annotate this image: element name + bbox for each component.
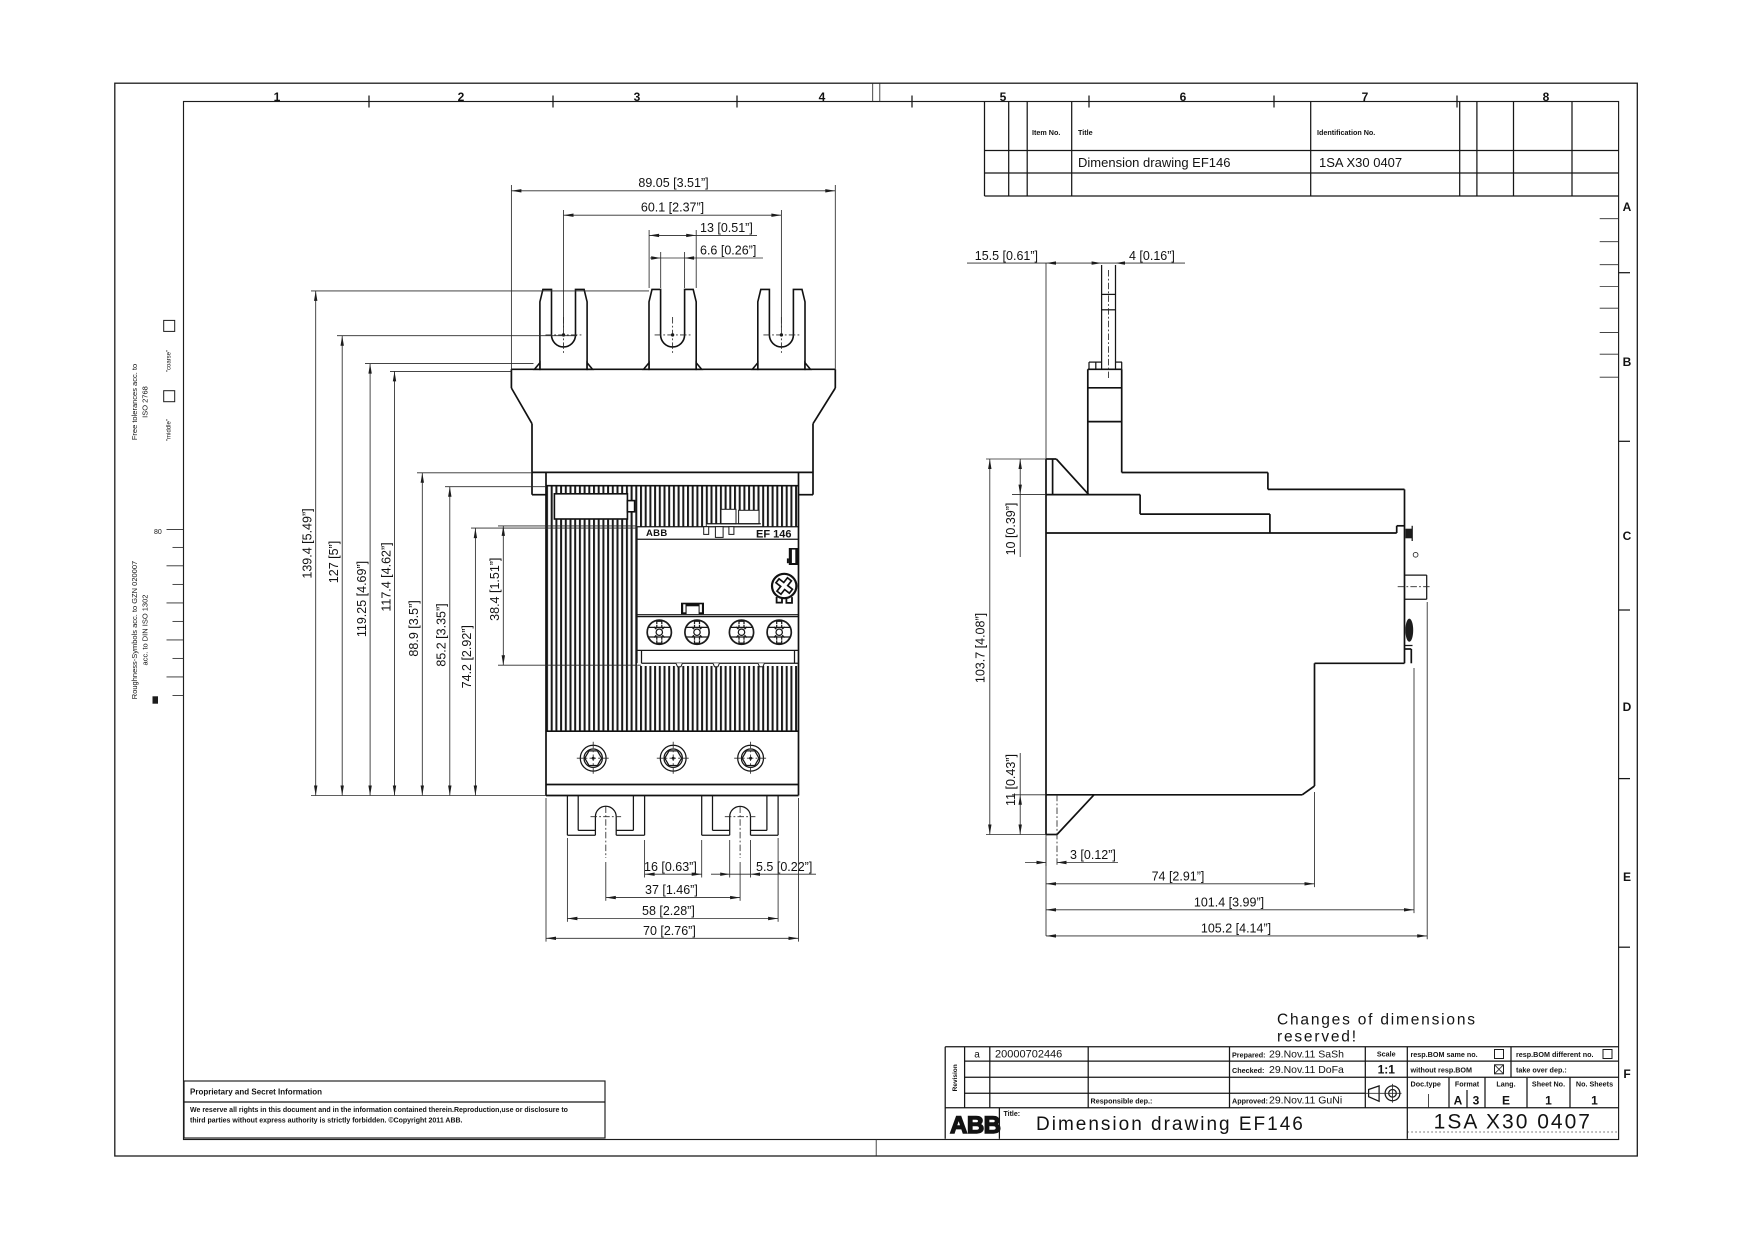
dimension 127 [5"] xyxy=(327,336,344,796)
svg-text:Changes of dimensions: Changes of dimensions xyxy=(1277,1012,1477,1029)
svg-text:7: 7 xyxy=(1362,90,1369,104)
svg-text:EF 146: EF 146 xyxy=(756,529,791,541)
side view: fork blade xyxy=(1089,265,1122,369)
dimension 88.9 [3.5"] xyxy=(407,473,424,796)
front view: top fork terminal 3 xyxy=(752,289,810,369)
svg-text:29.Nov.11 GuNi: 29.Nov.11 GuNi xyxy=(1269,1095,1342,1107)
svg-text:B: B xyxy=(1623,355,1632,369)
dimension 58 [2.28"] xyxy=(567,838,778,922)
svg-text:3 [0.12”]: 3 [0.12”] xyxy=(1070,848,1116,862)
dimension 4 [0.16"] xyxy=(1116,249,1175,265)
svg-text:8: 8 xyxy=(1543,90,1550,104)
dimension 37 [1.46"] xyxy=(606,862,740,901)
svg-text:resp.BOM same no.: resp.BOM same no. xyxy=(1411,1050,1478,1059)
svg-text:74 [2.91”]: 74 [2.91”] xyxy=(1152,869,1205,883)
side view: front bottom step xyxy=(1046,649,1411,835)
svg-text:No. Sheets: No. Sheets xyxy=(1576,1080,1613,1089)
svg-text:16 [0.63”]: 16 [0.63”] xyxy=(644,860,697,874)
svg-text:103.7 [4.08”]: 103.7 [4.08”] xyxy=(974,613,988,683)
svg-text:5.5 [0.22”]: 5.5 [0.22”] xyxy=(756,860,812,874)
side view: back face xyxy=(1045,459,1047,835)
front view: terminal screws row xyxy=(647,620,791,644)
left margin mm ruler xyxy=(167,530,184,696)
side view: DIN claw top xyxy=(1046,459,1405,835)
front view: bottom mounting band xyxy=(546,784,799,786)
svg-text:C: C xyxy=(1623,529,1632,543)
svg-text:139.4 [5.49”]: 139.4 [5.49”] xyxy=(301,508,315,578)
svg-text:6: 6 xyxy=(1180,90,1187,104)
svg-text:Doc.type: Doc.type xyxy=(1411,1080,1441,1089)
svg-text:Approved:: Approved: xyxy=(1232,1097,1268,1106)
svg-text:ABB: ABB xyxy=(646,528,667,539)
svg-text:Title:: Title: xyxy=(1004,1111,1021,1118)
svg-text:89.05 [3.51”]: 89.05 [3.51”] xyxy=(638,176,708,190)
front view: panel bottom double line xyxy=(637,614,799,616)
svg-text:70 [2.76”]: 70 [2.76”] xyxy=(643,924,696,938)
svg-text:Prepared:: Prepared: xyxy=(1232,1051,1266,1060)
svg-text:37 [1.46”]: 37 [1.46”] xyxy=(645,883,698,897)
svg-text:Roughness-Symbols acc. to GZN: Roughness-Symbols acc. to GZN 020007 xyxy=(130,561,139,699)
svg-text:117.4 [4.62”]: 117.4 [4.62”] xyxy=(379,542,393,611)
left taper xyxy=(511,388,532,424)
dimension 38.4 [1.51"] xyxy=(488,526,505,665)
svg-text:A: A xyxy=(1623,200,1632,214)
svg-text:105.2 [4.14”]: 105.2 [4.14”] xyxy=(1201,922,1271,936)
bottom fold mark xyxy=(875,1140,877,1157)
front view: white areas over fins xyxy=(637,527,799,666)
tolerance checkbox squares xyxy=(164,320,175,331)
svg-text:101.4 [3.99”]: 101.4 [3.99”] xyxy=(1194,895,1264,909)
front view: connector window top right xyxy=(789,548,798,565)
svg-text:2: 2 xyxy=(458,90,465,104)
svg-text:Checked:: Checked: xyxy=(1232,1066,1264,1075)
svg-text:74.2 [2.92”]: 74.2 [2.92”] xyxy=(460,625,474,688)
dimension 74 [2.91"] xyxy=(1046,792,1315,887)
svg-text:Dimension drawing EF146: Dimension drawing EF146 xyxy=(1078,155,1230,170)
top edge of terminal housing xyxy=(511,368,835,370)
svg-text:10 [0.39”]: 10 [0.39”] xyxy=(1004,503,1018,556)
dimension 117.4 [4.62"] xyxy=(379,371,396,795)
svg-text:Title: Title xyxy=(1078,128,1093,137)
front view: hex fastener 1 xyxy=(577,742,610,775)
svg-text:A: A xyxy=(1454,1094,1463,1108)
front view: panel left edge xyxy=(636,527,638,664)
svg-text:resp.BOM different no.: resp.BOM different no. xyxy=(1516,1050,1593,1059)
right upper corner xyxy=(834,369,836,388)
outer border frame xyxy=(115,83,1638,1156)
svg-text:acc. to DIN ISO 1302: acc. to DIN ISO 1302 xyxy=(141,595,150,666)
side view: dial knob profile xyxy=(1405,575,1427,599)
side view: bottom front outline xyxy=(1315,662,1405,664)
front view: reset window bottom xyxy=(681,603,704,615)
front view: bottom pin terminal 2 xyxy=(702,796,778,836)
label plate tab xyxy=(627,501,634,512)
svg-text:119.25 [4.69”]: 119.25 [4.69”] xyxy=(355,561,369,637)
svg-text:Scale: Scale xyxy=(1377,1050,1396,1059)
dimension 6.6 [0.26"] xyxy=(650,244,763,288)
svg-text:We reserve all rights in this: We reserve all rights in this document a… xyxy=(190,1107,568,1114)
top zone divider ticks xyxy=(368,96,370,108)
dimension 103.7 [4.08"] xyxy=(974,459,1047,835)
right taper xyxy=(813,388,835,424)
svg-text:29.Nov.11 SaSh: 29.Nov.11 SaSh xyxy=(1269,1049,1344,1061)
dimension 101.4 [3.99"] xyxy=(1046,668,1414,913)
svg-text:80: 80 xyxy=(154,529,162,536)
svg-text:60.1 [2.37”]: 60.1 [2.37”] xyxy=(641,201,704,215)
svg-text:38.4 [1.51”]: 38.4 [1.51”] xyxy=(488,558,502,621)
svg-text:"coarse": "coarse" xyxy=(167,350,173,372)
side view: front face xyxy=(1404,489,1406,663)
svg-text:3: 3 xyxy=(1473,1094,1480,1108)
proprietary information box xyxy=(184,1081,605,1138)
svg-text:1: 1 xyxy=(1591,1094,1598,1108)
side view: screw side profile xyxy=(1405,619,1413,642)
body right edge xyxy=(798,472,800,795)
svg-text:Proprietary and Secret Informa: Proprietary and Secret Information xyxy=(190,1088,322,1097)
left upper corner xyxy=(510,369,512,388)
svg-text:Dimension drawing EF146: Dimension drawing EF146 xyxy=(1036,1114,1305,1135)
svg-text:take over dep.:: take over dep.: xyxy=(1516,1065,1567,1074)
svg-text:D: D xyxy=(1623,700,1632,714)
hidden edge of foot xyxy=(1056,795,1058,866)
svg-text:15.5 [0.61”]: 15.5 [0.61”] xyxy=(975,249,1038,263)
front view: hex fastener 2 xyxy=(657,742,690,775)
dimension 15.5 [0.61"] xyxy=(967,249,1185,459)
front view: bottom pin terminal 1 xyxy=(567,796,644,836)
svg-text:Free tolerances acc. to: Free tolerances acc. to xyxy=(130,364,139,440)
front view: lower contour of panel xyxy=(637,649,799,651)
svg-text:Format: Format xyxy=(1455,1080,1480,1089)
svg-text:20000702446: 20000702446 xyxy=(995,1049,1062,1061)
dimension 105.2 [4.14"] xyxy=(1046,602,1427,939)
dimension 10 [0.39"] xyxy=(1004,459,1046,557)
left flange xyxy=(531,424,533,495)
svg-text:3: 3 xyxy=(634,90,641,104)
svg-text:1: 1 xyxy=(274,90,281,104)
svg-text:29.Nov.11 DoFa: 29.Nov.11 DoFa xyxy=(1269,1064,1344,1076)
first angle projection symbol xyxy=(1369,1086,1400,1101)
svg-text:4 [0.16”]: 4 [0.16”] xyxy=(1129,249,1175,263)
svg-text:13 [0.51”]: 13 [0.51”] xyxy=(700,221,753,235)
dimension 16 [0.63"] xyxy=(644,840,702,878)
dimension 60.1 [2.37"] xyxy=(564,201,782,331)
svg-text:11 [0.43”]: 11 [0.43”] xyxy=(1004,754,1018,806)
front view: fin field xyxy=(546,486,799,732)
side view: terminal block column xyxy=(1088,369,1122,494)
svg-text:Responsible dep.:: Responsible dep.: xyxy=(1091,1097,1153,1106)
dimension 5.5 [0.22"] xyxy=(711,840,816,878)
svg-text:1:1: 1:1 xyxy=(1378,1063,1396,1077)
svg-text:85.2 [3.35”]: 85.2 [3.35”] xyxy=(435,603,449,666)
body left edge xyxy=(545,472,547,795)
front view: setting dial xyxy=(772,574,796,603)
svg-text:127 [5”]: 127 [5”] xyxy=(327,541,341,583)
side view: bottom face xyxy=(1046,794,1302,796)
svg-text:Sheet No.: Sheet No. xyxy=(1532,1080,1565,1089)
svg-text:58 [2.28”]: 58 [2.28”] xyxy=(642,904,695,918)
right margin reduction-scale ruler ticks xyxy=(1600,219,1619,378)
svg-text:ISO 2768: ISO 2768 xyxy=(141,386,150,418)
svg-text:1: 1 xyxy=(1545,1094,1552,1108)
right flange xyxy=(812,424,814,495)
svg-text:ABB: ABB xyxy=(950,1112,1001,1139)
dimension 11 [0.43"] xyxy=(1004,753,1046,835)
svg-text:1SA X30 0407: 1SA X30 0407 xyxy=(1434,1111,1592,1134)
svg-text:1SA X30 0407: 1SA X30 0407 xyxy=(1319,155,1402,170)
body top rim xyxy=(532,471,813,473)
side view: bottom back foot xyxy=(1046,834,1057,836)
band small windows xyxy=(704,527,709,535)
svg-text:without resp.BOM: without resp.BOM xyxy=(1410,1065,1473,1074)
dimension 74.2 [2.92"] xyxy=(460,528,477,795)
front view: top fork terminal 1 xyxy=(535,289,593,369)
front view: marking band xyxy=(637,526,799,528)
side view: front clip xyxy=(1405,529,1412,539)
svg-text:third parties without express: third parties without express authority … xyxy=(190,1117,463,1125)
svg-text:4: 4 xyxy=(819,90,826,104)
svg-text:Revision: Revision xyxy=(952,1064,959,1091)
svg-text:E: E xyxy=(1623,870,1631,884)
svg-text:88.9 [3.5”]: 88.9 [3.5”] xyxy=(407,600,421,656)
side view: top face xyxy=(1122,472,1268,474)
svg-text:5: 5 xyxy=(1000,90,1007,104)
inner border frame xyxy=(184,102,1619,1140)
front view: top fork terminal 2 xyxy=(644,289,702,369)
fins top line xyxy=(546,485,799,487)
svg-text:Item No.: Item No. xyxy=(1032,128,1060,137)
dimension 89.05 [3.51"] xyxy=(511,176,835,369)
svg-text:reserved!: reserved! xyxy=(1277,1029,1358,1046)
dimension 139.4 [5.49"] xyxy=(301,291,318,796)
svg-text:F: F xyxy=(1623,1067,1630,1081)
dimension 119.25 [4.69"] xyxy=(355,364,372,796)
svg-text:Identification No.: Identification No. xyxy=(1317,128,1375,137)
front view: housing outline xyxy=(511,369,835,795)
title block grid xyxy=(945,1047,1618,1139)
dimension 3 [0.12"] xyxy=(1025,838,1118,866)
svg-text:Lang.: Lang. xyxy=(1496,1080,1515,1089)
top fold mark (double line) xyxy=(872,83,874,101)
left dimension stack extension lines xyxy=(311,291,649,796)
svg-text:E: E xyxy=(1502,1094,1510,1108)
fins bottom line xyxy=(546,730,799,732)
dimension 13 [0.51"] xyxy=(649,221,757,288)
svg-text:6.6 [0.26”]: 6.6 [0.26”] xyxy=(700,244,756,258)
right zone divider ticks xyxy=(1619,272,1630,274)
dimension 85.2 [3.35"] xyxy=(435,487,452,796)
top-right identification table xyxy=(985,102,1619,197)
front view: rating label plate xyxy=(554,494,627,519)
front view: hex fastener 3 xyxy=(734,742,767,775)
dimension 70 [2.76"] xyxy=(546,798,799,942)
front view: stepped window above marking band xyxy=(707,524,761,527)
svg-text:a: a xyxy=(974,1050,980,1061)
svg-text:"middle": "middle" xyxy=(167,419,173,441)
